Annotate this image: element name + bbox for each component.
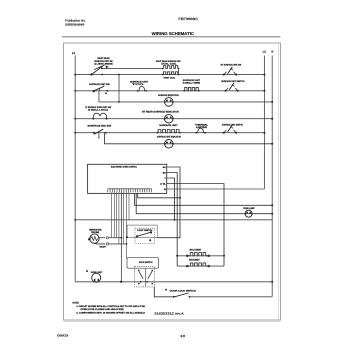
svg-text:RIGHT REAR: RIGHT REAR [98, 57, 110, 60]
svg-text:HIGH COIL: HIGH COIL [164, 76, 176, 79]
resistor surface unit rung5 [157, 130, 180, 133]
svg-text:RT REAR SURFACE INDICATOR: RT REAR SURFACE INDICATOR [142, 111, 179, 114]
lamp surface indicator [165, 98, 174, 107]
node rung1-L2 junction [263, 74, 265, 76]
wire EOC W to L2 [167, 188, 265, 190]
wire EOC Y drop [167, 178, 175, 220]
svg-text:RECEPT: RECEPT [100, 246, 107, 249]
switch right rear surface unit sw pole1 [92, 66, 103, 74]
wire N bus [271, 56, 273, 297]
wire comb drop to mid rung [135, 193, 273, 205]
wire plug lower to harness [109, 243, 127, 245]
svg-text:OVEN DOOR CLOSED AND UNLOCKED: OVEN DOOR CLOSED AND UNLOCKED [80, 308, 124, 311]
svg-text:SURFACE UNIT: SURFACE UNIT [159, 124, 178, 127]
wire EOC harness 4 [118, 192, 120, 244]
wire EOC harness to door switch [127, 192, 128, 258]
svg-text:TCO: TCO [132, 83, 144, 86]
svg-text:L1: L1 [72, 51, 76, 55]
svg-text:BROIL ELEMENT: BROIL ELEMENT [190, 248, 202, 251]
lock switch center post [145, 268, 147, 286]
resistor broil element [190, 253, 207, 256]
wire rung5 to rung6 drop [105, 133, 273, 144]
svg-text:DUAL COIL: DUAL COIL [161, 62, 177, 65]
EOC connector comb [108, 188, 152, 190]
switch lock right blade [148, 271, 152, 279]
svg-text:BR: BR [163, 171, 167, 174]
svg-text:SURFACE UNIT INDICATOR: SURFACE UNIT INDICATOR [157, 136, 181, 139]
resistor right rear surface unit low coil [163, 66, 179, 69]
svg-text:316253312 rev.A: 316253312 rev.A [154, 312, 184, 316]
resistor bake element [190, 263, 207, 266]
svg-text:SURFACE UNIT SW: SURFACE UNIT SW [94, 60, 113, 63]
svg-text:OVEN LIGHT: OVEN LIGHT [91, 271, 103, 274]
title underline rule [62, 36, 281, 38]
svg-text:SURFACE UNIT SWITCH: SURFACE UNIT SWITCH [221, 80, 244, 83]
wire rung1 (L1 to L2) [75, 74, 264, 76]
wire probe lower lead [94, 242, 105, 245]
wire EOC LTBL to bake [167, 184, 224, 267]
wire EOC harness 1 [111, 192, 113, 238]
svg-text:FEF366BC: FEF366BC [178, 17, 199, 21]
svg-text:WIRING SCHEMATIC: WIRING SCHEMATIC [152, 31, 194, 36]
electronic oven control box [88, 164, 167, 193]
switch door light blade [137, 232, 152, 236]
node ovenlight-N junction [271, 281, 273, 283]
switch lock left blade [139, 271, 143, 279]
svg-text:N: N [271, 50, 273, 54]
lamp surface unit indicator [165, 140, 174, 149]
switch door lock [175, 293, 189, 297]
wire rung1 upper branch [102, 67, 163, 69]
svg-text:2. COMPONENTS MFG. IS SHOWN O: 2. COMPONENTS MFG. IS SHOWN OFFSET ON AL… [76, 312, 145, 315]
svg-text:BK: BK [163, 166, 167, 169]
node rung3-N junction [271, 101, 273, 103]
svg-text:BAKE ELEMENT: BAKE ELEMENT [189, 259, 200, 262]
svg-text:OVEN LAMP: OVEN LAMP [243, 207, 255, 210]
node rung4-L1 junction [74, 118, 76, 120]
wire lock box to motor line [154, 287, 174, 297]
temperature probe [90, 234, 99, 243]
wire EOC harness 6 [128, 192, 130, 220]
wire L2 bus [263, 56, 265, 190]
svg-text:LT BL: LT BL [160, 182, 166, 185]
svg-text:(1 SMALL 1 DUAL): (1 SMALL 1 DUAL) [88, 109, 108, 112]
node rung2-L1 junction [74, 90, 76, 92]
svg-text:1. CIRCUIT SHOWN WITH ALL CON: 1. CIRCUIT SHOWN WITH ALL CONTROLS SET T… [76, 305, 145, 308]
wire motor line to N [190, 296, 273, 298]
thermal switch TCO rung2 [138, 86, 147, 90]
node ovenlamp-N junction [271, 213, 273, 215]
resistor right rear surface unit high coil [163, 72, 179, 75]
wire rung2 to rung3 drop [98, 91, 100, 102]
wire rung3 (to N) [99, 101, 272, 103]
node oven light rung junction [120, 281, 122, 283]
wire comb drop to upper link [138, 193, 180, 197]
wire rung4 (L1 to N) [75, 118, 272, 120]
svg-text:(1 SMALL 2 WIRE): (1 SMALL 2 WIRE) [183, 81, 201, 84]
wire EOC harness to oven light [120, 192, 122, 282]
wire coil right-end join [178, 69, 180, 75]
svg-text:SURFACE INDICATOR: SURFACE INDICATOR [158, 94, 179, 97]
svg-text:RT SURFACE UNIT SW: RT SURFACE UNIT SW [221, 63, 242, 66]
svg-text:LIGHT SWITCH: LIGHT SWITCH [137, 229, 152, 232]
svg-text:(1 LARGE 1 BRIDGE): (1 LARGE 1 BRIDGE) [94, 62, 113, 65]
wire EOC BK to light switch [157, 167, 180, 238]
door light switch outer box [127, 225, 157, 238]
wire rung2 (L1 to L2) [75, 90, 264, 92]
node rung5-L1 junction [74, 132, 76, 134]
svg-text:L2: L2 [263, 50, 267, 54]
lock switch box [135, 266, 155, 287]
wire EOC harness 5 [123, 192, 125, 244]
wire EOC harness 2 [113, 192, 115, 238]
wire EOC harness 3 [116, 192, 118, 238]
probe plug contact upper [106, 237, 108, 239]
svg-text:5995364849: 5995364849 [65, 22, 84, 26]
svg-text:10: 10 [180, 334, 186, 338]
node lock-rung junctions [140, 281, 142, 283]
switch surface unit sw right rung2 [226, 88, 228, 91]
svg-text:SURFACE IND SW: SURFACE IND SW [87, 125, 112, 128]
wire L1 bus [74, 56, 76, 282]
svg-text:SURFACE UNIT SW: SURFACE UNIT SW [89, 83, 110, 86]
node rung2-L2 junction [263, 90, 265, 92]
probe plug contact lower [106, 243, 108, 245]
node rung4-N junction [271, 118, 273, 120]
svg-text:NOTES:: NOTES: [73, 301, 80, 304]
svg-text:ELECTRONIC OVEN CONTROL: ELECTRONIC OVEN CONTROL [111, 166, 138, 169]
wire rung5 (L1 to L2) [75, 132, 264, 134]
wire plug upper to harness [109, 237, 122, 239]
wire comb drop to lamp rung [136, 193, 272, 213]
switch surface ind sw [94, 129, 103, 134]
resistor surface unit rung2 [184, 87, 199, 90]
node broil right junction [223, 255, 225, 257]
wire long rung L1-N [75, 219, 272, 221]
schematic border frame [64, 43, 281, 320]
node rung6-N junction [271, 143, 273, 145]
switch surface unit sw left [95, 86, 104, 90]
door light switch inner box [135, 228, 155, 243]
wire rung1 to rung3 drop [118, 75, 120, 102]
lamp oven light [92, 273, 101, 282]
node broil left junction [176, 255, 178, 257]
node rung5-L2 junction [263, 132, 265, 134]
svg-text:SURFACE UNIT SWITCH: SURFACE UNIT SWITCH [222, 123, 243, 126]
thermal limiter rung5 [196, 128, 205, 133]
lamp LF surface indicator [165, 114, 174, 123]
lamp oven lamp [245, 210, 252, 217]
wire EOC BR to broil [167, 173, 178, 267]
svg-text:PROBE: PROBE [91, 231, 100, 234]
thermal switch double dome rung4 [93, 113, 106, 118]
svg-text:W: W [164, 188, 166, 191]
wire bake line [177, 265, 224, 267]
switch right rear surface unit sw pole2 [94, 65, 104, 70]
switch surface unit switch rung5 [224, 130, 226, 133]
svg-text:DOOR LOCK SWITCH: DOOR LOCK SWITCH [170, 289, 196, 292]
wire oven light rung [75, 281, 272, 283]
wire broil line [177, 255, 224, 257]
svg-text:DOOR SWITCH: DOOR SWITCH [139, 261, 153, 264]
svg-text:LIMITER: LIMITER [196, 126, 208, 129]
switch RF surface unit sw [224, 72, 226, 75]
wire probe upper lead [99, 237, 105, 239]
svg-text:09/03: 09/03 [57, 334, 69, 338]
door switch box [127, 258, 159, 269]
